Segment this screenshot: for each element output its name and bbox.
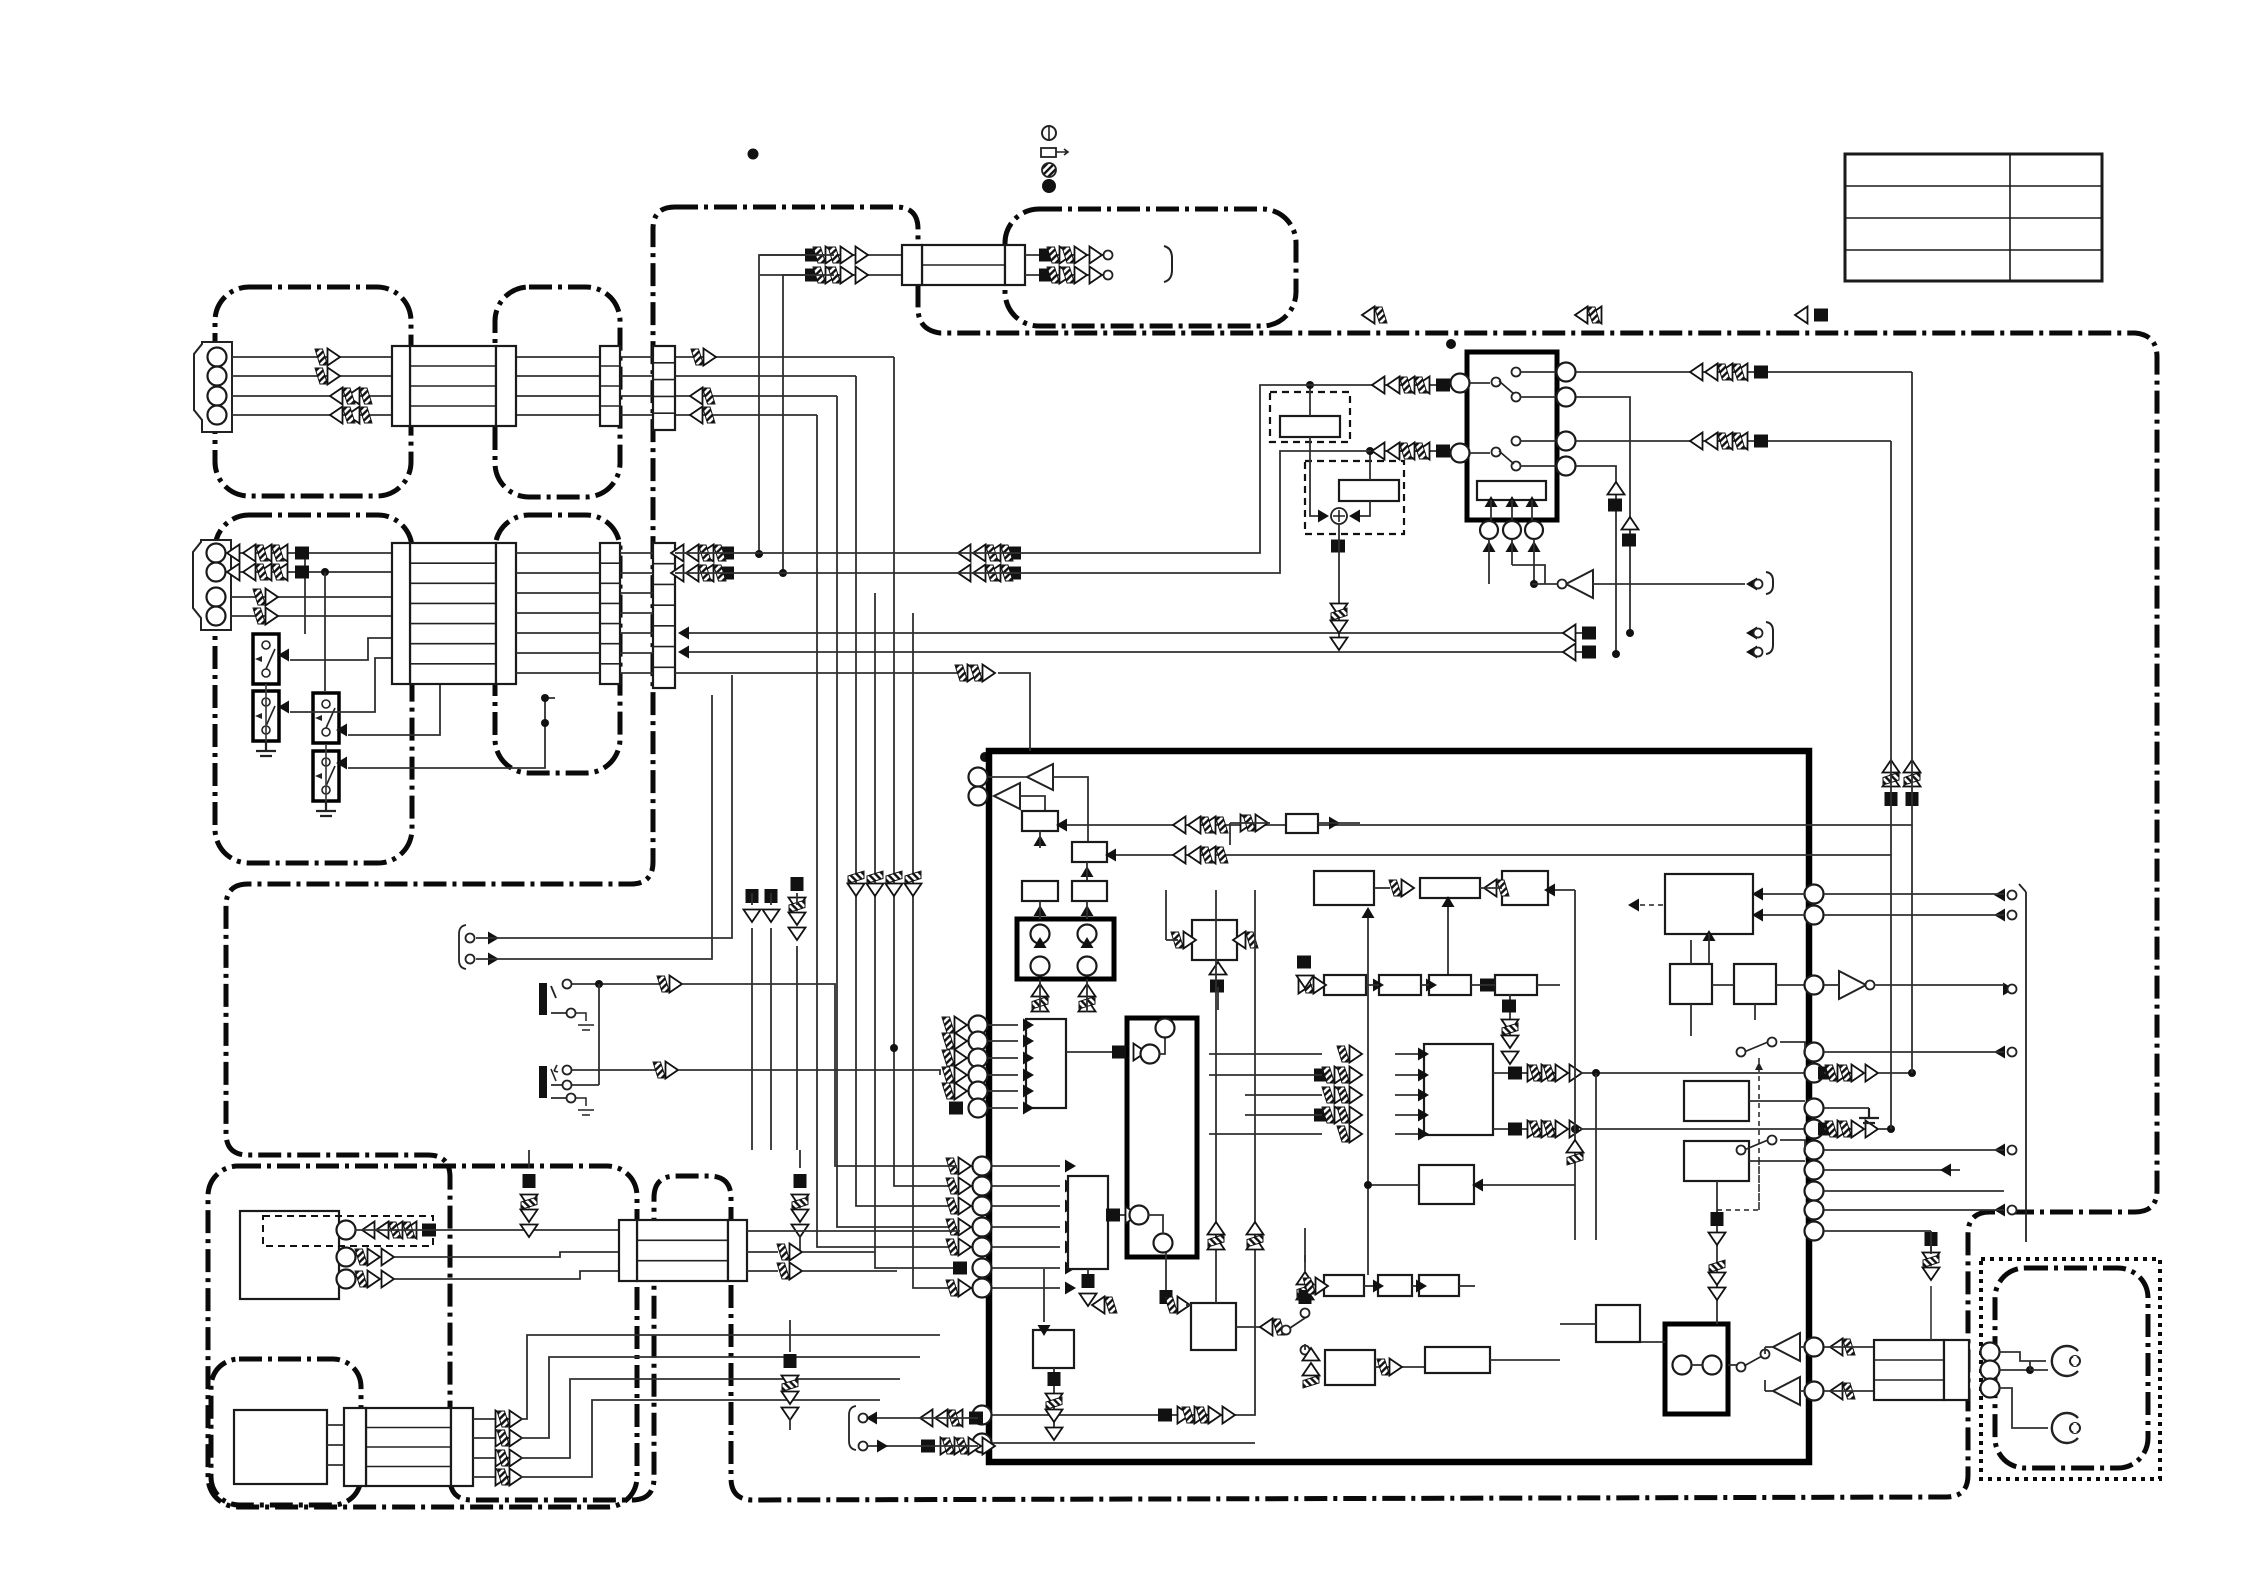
board crossing flags on top edge	[1362, 307, 1387, 324]
buffer triangle right	[1839, 971, 1866, 999]
ground on pin wire	[1859, 1108, 1879, 1123]
display bracket mark	[1164, 246, 1172, 282]
switch select wires	[290, 638, 392, 660]
up arrow into clock block	[1703, 930, 1716, 941]
detect switch S1	[253, 634, 279, 684]
connector column CN105 on board edge	[653, 346, 675, 430]
connector column CN205 on board edge	[653, 543, 675, 688]
block Bk6	[1425, 1347, 1490, 1373]
center verticals right of DSP	[1574, 890, 1576, 1240]
flag arrows on speaker A rows	[315, 349, 340, 366]
page reference dot 2	[1446, 339, 1456, 349]
up flags under evol	[1032, 999, 1049, 1012]
verticals above Bk1	[1215, 890, 1217, 1303]
ADC2 out	[1108, 1214, 1130, 1216]
junction dots on DSP outs	[1592, 1069, 1600, 1077]
arrows into selector level block	[1485, 496, 1498, 507]
up flags above IC edge on verticals	[1885, 792, 1898, 806]
selector switch 1	[1470, 382, 1490, 384]
long verticals through IC right	[1911, 825, 1913, 1073]
connector block CN202/CN203	[410, 543, 496, 684]
dashed filter box 1	[1270, 392, 1350, 442]
down flag between selector and jacks	[1925, 1232, 1938, 1246]
wire bus speaker A rows	[232, 356, 392, 358]
bus wires to bracket pins 2	[1582, 627, 1596, 640]
connector column CN204	[600, 543, 620, 684]
page reference dot 1	[748, 149, 759, 160]
CN401 out wires	[747, 1230, 960, 1232]
junction dots on select wires	[394, 674, 402, 682]
mech wires with flags	[473, 1418, 500, 1420]
black square + down flags under summing box	[1331, 540, 1345, 553]
RCA jack R	[2052, 1413, 2080, 1443]
mechanism block (bottom-left board)	[234, 1410, 327, 1484]
arrows around logic rect	[1241, 815, 1254, 832]
dot on group2 feed	[890, 1044, 898, 1052]
filter block F2	[1339, 480, 1399, 501]
DSP left feed wires	[1209, 1053, 1322, 1055]
ADC selector tall block	[1026, 1019, 1066, 1108]
vertical from clock chain	[1690, 1004, 1692, 1036]
filter internal wires	[1309, 385, 1311, 416]
bracket to power amp	[1766, 572, 1773, 594]
dashed stub from clock block	[1640, 904, 1665, 906]
mute out switch	[1737, 1363, 1746, 1372]
display board wires	[1025, 254, 1108, 256]
wire bus C rows mid section	[516, 552, 600, 554]
headphone buffer triangles	[1773, 1333, 1800, 1361]
flag arrows on audio lines mid	[1007, 547, 1021, 560]
connector CN201 (4-pin, box C)	[193, 540, 231, 630]
selector internal level block	[1477, 481, 1546, 500]
up arrows + squares on selector verticals	[1608, 482, 1625, 495]
dashed switch control path	[1716, 1058, 1759, 1210]
HP out pins	[1805, 1338, 1824, 1357]
detect switch S2	[253, 691, 279, 741]
switch out wires to IC pins	[1805, 1043, 1824, 1062]
wire filter1 to selector riser	[675, 385, 1452, 553]
arrows into L3 L4	[1034, 905, 1047, 916]
selector output wires to main verticals	[1576, 371, 1912, 373]
detect switch S3	[313, 693, 339, 743]
wire from DAC2 down	[1165, 1253, 1167, 1290]
detect switch S4	[313, 751, 339, 801]
PLL block row A1	[1314, 871, 1374, 905]
monitor amp triangle	[1566, 570, 1593, 598]
connector block CN102/CN103 (between A and B)	[410, 346, 496, 426]
record select switch	[1282, 1326, 1291, 1335]
ADC out to DAC block	[1066, 1051, 1125, 1053]
IC analog in pins group 2	[973, 1157, 992, 1176]
jack wires	[572, 983, 660, 985]
connector column CN104	[600, 346, 620, 426]
jack wires	[1999, 1352, 2046, 1361]
down flag arrow row above IC	[848, 871, 865, 896]
chain rect4 down stack	[1509, 994, 1511, 1044]
board outline: front panel board (bottom-left large)	[208, 1166, 637, 1507]
display feed wires	[808, 254, 834, 256]
arrows row B	[1299, 977, 1312, 994]
board outline: jack board inner outline	[1995, 1268, 2148, 1468]
board outline: jack board dotted frame (bottom-right)	[1981, 1259, 2160, 1479]
Bk1 out to record switch	[1236, 1326, 1262, 1328]
DAC input pin circle	[1141, 1045, 1160, 1064]
A2 bottom vertical from chain	[1447, 900, 1449, 974]
flag arrows on control wires	[1203, 817, 1228, 834]
DSP signal processor block	[1424, 1044, 1493, 1135]
record out switch 2	[1744, 1140, 1768, 1150]
row7 wire	[675, 672, 966, 674]
crossing stacks above connector	[523, 1174, 536, 1188]
HP level block L1	[1022, 811, 1058, 831]
selector switch 2	[1470, 452, 1490, 454]
page reference dot 3	[980, 752, 990, 762]
mech connector CN501	[366, 1408, 451, 1486]
block Bk5	[1325, 1350, 1375, 1385]
vertical sense wires from C rows to switches	[304, 553, 306, 634]
DAC2 pins	[1130, 1206, 1149, 1225]
flag arrows group2	[946, 1158, 971, 1175]
connector CN101 (4-pin, box A)	[194, 342, 232, 432]
inverter amp U1a	[1027, 764, 1053, 790]
crossing verticals into front board	[751, 928, 753, 1150]
record out switch 1	[1744, 1042, 1768, 1052]
headphone jack J1	[539, 983, 547, 1015]
tuner flags	[422, 1224, 436, 1237]
legend: hatched-circle symbol	[1042, 163, 1056, 177]
evol input wires from pins	[1039, 1006, 1041, 1012]
output mute block (bottom bold)	[1665, 1324, 1728, 1414]
revision table	[1845, 154, 2102, 281]
tuner block (front panel board)	[240, 1211, 339, 1299]
serial interface block	[1192, 920, 1237, 960]
flag arrows outside right pins	[1818, 1067, 1832, 1080]
flag arrows before input pins	[942, 1017, 967, 1034]
clock block right	[1665, 874, 1753, 934]
PLL block row A3	[1502, 871, 1548, 905]
board outline: relay block 2	[495, 515, 620, 773]
connector CN401 (front panel to main)	[637, 1220, 728, 1281]
black square down arrows mid-left	[746, 889, 759, 903]
clock divider blocks right	[1670, 964, 1712, 1004]
interface block right of DSP	[1684, 1081, 1749, 1121]
connector CN301 display	[922, 245, 1005, 285]
ground under S4	[316, 801, 336, 816]
row B of small blocks	[1324, 975, 1366, 995]
A1 bottom vertical	[1367, 910, 1369, 1275]
flag arrows on display board side	[1039, 249, 1053, 262]
HP level block L2	[1072, 842, 1107, 862]
mute block circles	[1673, 1356, 1692, 1375]
rear jack connector CN601	[1874, 1340, 1944, 1400]
board outline: display unit (top-middle)	[1005, 209, 1296, 326]
external connector bracket right	[2019, 884, 2026, 1242]
legend: power plug symbol	[1042, 126, 1056, 140]
up flag above record switch	[1297, 1287, 1314, 1300]
selector input pins	[1451, 374, 1470, 393]
board outline: speaker relay block	[495, 287, 620, 497]
selector output pins right	[1557, 363, 1576, 382]
flags outside HP pins	[1830, 1339, 1855, 1356]
IC right wires to external pins	[1824, 1051, 2004, 1053]
up flags on Bk1 verticals	[1208, 1237, 1225, 1250]
bus return wires from main board	[681, 632, 1582, 634]
wire mute top	[1640, 1341, 1665, 1343]
flag arrows into display connector	[805, 249, 819, 262]
sub level blocks L3 L4	[1022, 881, 1058, 901]
ADC2 tall block	[1068, 1176, 1108, 1269]
IC right clock out pin	[1805, 976, 1824, 995]
wire filter2 to selector riser	[675, 451, 1452, 573]
vertical to mute block	[1716, 1181, 1718, 1324]
small logic rect mid	[1286, 814, 1318, 833]
mech wire runs to main board	[520, 1335, 940, 1419]
electronic volume block (4 pins)	[1017, 919, 1114, 979]
tuner wires to connector	[355, 1229, 619, 1231]
flag arrows right of selector	[1754, 366, 1768, 379]
wire bus speaker C rows	[231, 552, 392, 554]
PLL block row A2	[1420, 878, 1480, 898]
dashed filter box 2	[1305, 461, 1404, 534]
IC main system LSI outline	[989, 751, 1809, 1462]
external pins right group	[1994, 889, 2005, 902]
IC input selector switch block	[1467, 352, 1557, 520]
external input bracket	[459, 925, 466, 969]
verticals from display connector wires	[759, 255, 902, 554]
block Bk0 bottom-left	[1033, 1330, 1074, 1368]
flag arrows filter2 to selector	[1436, 445, 1450, 458]
staggered verticals from speaker rows down to IC	[894, 357, 957, 1186]
ground under S2	[256, 741, 276, 756]
legend: solid-circle symbol	[1042, 179, 1056, 193]
Bk5 out wires	[1375, 1366, 1425, 1368]
flag arrows on speaker C rows	[295, 547, 309, 560]
bottom IC wires from left pins	[973, 1406, 992, 1425]
arrows into L1 L2	[1034, 835, 1047, 846]
arrows between row A blocks	[1389, 880, 1414, 897]
verticals from selector outputs	[1576, 397, 1630, 633]
summing node in filter box 2	[1331, 508, 1347, 524]
crossing stack below CN401	[784, 1354, 797, 1368]
DAC top pin circle	[1156, 1019, 1175, 1038]
record buffer chain	[1324, 1275, 1364, 1296]
selector bottom feed wires	[1488, 539, 1490, 584]
legend: signal-route symbol	[1041, 148, 1056, 157]
Bk0 output stack	[1053, 1368, 1055, 1434]
dots on right wires	[1908, 1069, 1916, 1077]
bottom-left external pins	[969, 1412, 983, 1425]
evol internal pins	[1031, 925, 1050, 944]
IC right pins clock	[1805, 885, 1824, 904]
board outline: mechanism block (bottom-left small)	[211, 1359, 361, 1505]
flag arrows on audio lines near connector	[720, 547, 734, 560]
filter block F1	[1280, 416, 1340, 437]
IC analog input pins group 1	[969, 1016, 988, 1035]
up flag on center vertical	[1567, 1140, 1584, 1165]
DAC block (tall bold)	[1127, 1018, 1197, 1257]
block Bk1	[1191, 1303, 1236, 1350]
arrows under selector bottom pins	[1483, 541, 1496, 552]
tuner pins	[337, 1221, 356, 1240]
board outline: front speaker block (top-left)	[215, 287, 411, 496]
flag arrows filter1 to selector	[1436, 379, 1450, 392]
inverter amp U1b	[994, 783, 1020, 809]
DSP input arrows from left	[1395, 1053, 1424, 1055]
DSP output arrows right	[1493, 1072, 1560, 1074]
headphone jack J2	[539, 1066, 547, 1098]
flag arrows right of connector column A	[691, 349, 716, 366]
sub block below DSP	[1419, 1165, 1474, 1204]
cluster on bottom wire	[1158, 1409, 1172, 1422]
aux input wires	[476, 675, 732, 938]
flag clusters into DSP	[1337, 1046, 1362, 1063]
dashed AM loop box	[263, 1216, 433, 1246]
A3 input wire from vertical	[1548, 889, 1575, 891]
jack board pins	[1981, 1343, 2000, 1362]
long control wires from right	[1058, 372, 1912, 825]
IC headphone out pins	[969, 768, 988, 787]
selector bottom pins	[1480, 521, 1498, 539]
wire from pin 1231 down to jack feed	[1930, 1231, 1932, 1254]
inverter feed wires	[988, 776, 1027, 778]
RCA jack L	[2052, 1346, 2080, 1376]
bracket to power amp 2	[1766, 622, 1773, 654]
junction dots on C rows	[321, 568, 329, 576]
monitor amp wires	[1532, 583, 1557, 585]
board outline: main board (large snake outline)	[226, 207, 2157, 1500]
board outline: rear speaker block (mid-left)	[215, 515, 412, 863]
interface block 2	[1684, 1141, 1749, 1181]
stack before chain rect1	[1297, 956, 1311, 969]
